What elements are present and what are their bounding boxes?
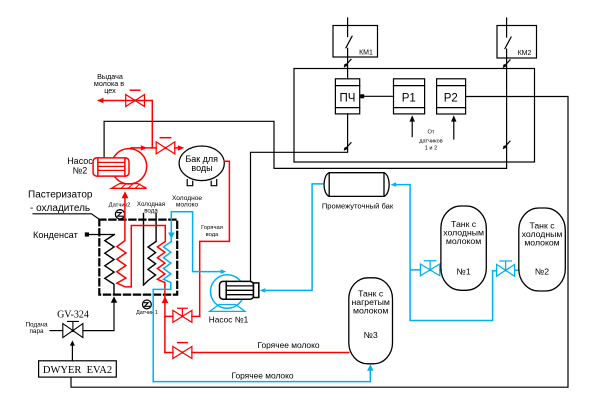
svg-text:КМ2: КМ2 (518, 50, 532, 57)
milk delivery line with arrow (97, 98, 152, 103)
cold water coil (right black coil) (144, 241, 157, 285)
breaker symbol on KM2 wire (503, 60, 510, 67)
breaker symbol on KM2 output wire (503, 141, 510, 148)
arrow hot milk to pump2 (122, 191, 129, 198)
svg-text:ПЧ: ПЧ (340, 93, 356, 105)
svg-text:GV-324: GV-324 (57, 310, 89, 321)
label steam supply (25, 321, 47, 335)
frequency converter PCh (335, 79, 359, 114)
wire to contactor KM1 (347, 18, 349, 26)
valve pump2 to water tank (156, 138, 175, 154)
label tank3 (352, 288, 390, 340)
hot water valve line (165, 315, 200, 317)
svg-text:Горячее молоко: Горячее молоко (231, 370, 293, 380)
svg-text:От: От (428, 130, 435, 136)
condensate line with arrow (85, 232, 115, 236)
steam coil (left black coil) (105, 235, 115, 295)
svg-text:датчиков: датчиков (419, 138, 442, 144)
hot milk line to tank3 (165, 352, 349, 354)
wire R1 to PCh with arrow (360, 94, 393, 98)
sensor 1 symbol (143, 300, 152, 309)
cold water outlet stub (155, 214, 157, 242)
breaker symbol on PCh output wire (344, 143, 351, 150)
label from sensors 1 and 2 (419, 130, 442, 152)
svg-text:молоко: молоко (176, 201, 199, 208)
tank with cold milk no.1 (441, 206, 486, 290)
svg-text:молоком: молоком (446, 236, 481, 246)
pasteurizer dashed enclosure (99, 220, 177, 295)
control box (294, 69, 535, 163)
svg-text:Горячее молоко: Горячее молоко (257, 340, 319, 350)
valve line to tank2 (493, 269, 519, 272)
label tank2 (522, 220, 563, 276)
svg-text:Конденсат: Конденсат (33, 230, 79, 240)
label milk delivery to shop (94, 72, 124, 95)
tank with heated milk no.3 (349, 278, 393, 364)
svg-text:Датчик 1: Датчик 1 (136, 310, 158, 316)
arrow hot milk return into exchanger (162, 296, 169, 303)
svg-text:вода: вода (206, 232, 219, 238)
arrow pump1 outlet (221, 269, 227, 274)
svg-text:DWYER EVA2: DWYER EVA2 (43, 365, 112, 376)
hot milk coil (left red coil) with pipe to pump2 (117, 197, 166, 353)
svg-text:цех: цех (104, 86, 116, 95)
suction pipe intermediate tank to pump1 (266, 184, 322, 291)
arrow into pump1 motor (260, 288, 266, 293)
svg-text:Горячая: Горячая (201, 225, 223, 231)
tank with cold milk no.2 (519, 208, 566, 291)
pump1 motor (220, 281, 259, 299)
cold water inlet stub (143, 214, 145, 286)
steam valve GV-324 (63, 321, 83, 337)
svg-text:№2: №2 (73, 166, 88, 176)
wire R2 to DWYER controller (71, 97, 568, 388)
label tank1 (443, 219, 484, 276)
hot milk valve (173, 343, 192, 359)
contactor KM2 (497, 26, 537, 59)
heated milk pipe to tank3 (153, 370, 370, 382)
cold milk supply pipe from tanks (397, 185, 493, 321)
svg-text:Р2: Р2 (444, 93, 458, 105)
svg-text:КМ1: КМ1 (359, 50, 373, 57)
intermediate tank (324, 173, 389, 197)
pump2 base (111, 184, 146, 189)
svg-text:№1: №1 (457, 266, 471, 276)
valve line to tank1 (410, 269, 441, 271)
wire PCh to pump1 motor (251, 114, 348, 281)
label pump2 (67, 156, 93, 176)
sensor input wire to R2 (451, 115, 456, 139)
svg-text:- охладитель: - охладитель (30, 203, 90, 214)
pipe valve to water tank with arrow (175, 145, 185, 150)
label pasteurizer-cooler (28, 190, 100, 220)
milk heating coil (blue coil) (153, 242, 171, 382)
relay R2 (437, 79, 466, 114)
steam pipe into valve (50, 330, 63, 332)
relay R1 (394, 79, 425, 114)
hot water pipe from water tank (200, 161, 230, 316)
svg-text:№3: №3 (364, 330, 378, 340)
svg-text:воды: воды (191, 163, 212, 173)
contactor KM1 (333, 26, 378, 58)
cold milk pipe pump1 to exchanger (171, 212, 220, 272)
label water tank (185, 154, 218, 173)
pump2 discharge pipe with arrow (131, 145, 156, 150)
svg-text:Пастеризатор: Пастеризатор (28, 190, 93, 201)
svg-text:Насос №1: Насос №1 (209, 315, 249, 325)
arrow into intermediate tank (391, 182, 397, 187)
milk delivery riser (151, 101, 153, 148)
steam pipe valve to heat exchanger (83, 302, 114, 331)
svg-text:№2: №2 (535, 266, 549, 276)
breaker symbol on KM1 wire (344, 59, 351, 66)
valve tank1 (420, 261, 439, 276)
svg-text:молоком: молоком (353, 305, 388, 315)
wire KM2 to pump2 motor (104, 58, 507, 168)
arrow cold milk into exchanger (168, 233, 175, 240)
label hot water (201, 225, 223, 238)
pump1 circle (211, 275, 245, 309)
svg-text:Промежуточный бак: Промежуточный бак (322, 201, 394, 210)
sensor input wire to R1 (410, 115, 415, 136)
label cold milk (172, 195, 202, 209)
valve tank2 (497, 261, 515, 276)
water tank (179, 146, 224, 186)
milk delivery valve (126, 90, 145, 106)
svg-text:Датчик2: Датчик2 (109, 203, 131, 209)
pump2 circle (111, 149, 146, 184)
pump1 base (210, 305, 245, 312)
svg-text:пара: пара (29, 328, 44, 335)
wire to contactor KM2 (506, 18, 508, 26)
svg-text:Р1: Р1 (402, 93, 416, 105)
arrow into tank3 bottom (367, 364, 373, 371)
svg-text:молоком: молоком (524, 238, 559, 248)
wire KM1 to control box (347, 57, 349, 79)
svg-text:Насос: Насос (67, 156, 93, 166)
pump2 motor (93, 158, 129, 176)
arrow DWYER to valve GV-324 (70, 340, 75, 360)
sensor 2 symbol (115, 210, 124, 219)
label cold water (137, 201, 165, 215)
svg-text:1 и 2: 1 и 2 (425, 146, 437, 152)
hot water valve (173, 308, 192, 322)
arrow steam into heat exchanger (111, 296, 117, 303)
controller DWYER EVA2 (39, 361, 117, 377)
